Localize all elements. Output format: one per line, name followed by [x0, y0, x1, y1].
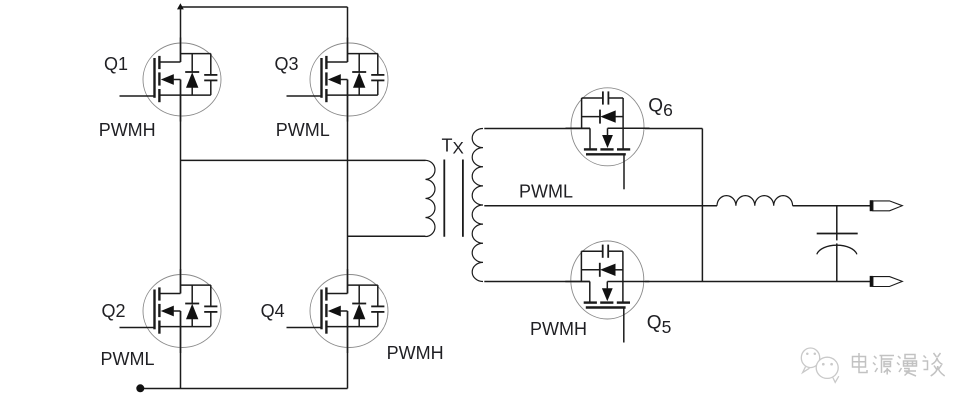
transistor Q1 [120, 38, 222, 122]
wire Q6 source to output return corner [645, 128, 702, 130]
wire Q5 source / return rail to output [645, 281, 871, 283]
node Vin+ arrow [177, 3, 184, 9]
wire mid rail: left leg to transformer primary top [181, 159, 426, 161]
wire bottom rail Vin- [140, 388, 347, 390]
svg-text:PWMH: PWMH [99, 120, 156, 140]
wire inductor to output terminal [793, 205, 871, 207]
svg-text:PWMH: PWMH [387, 343, 444, 363]
wire center tap to inductor [484, 205, 717, 207]
svg-text:TX: TX [442, 135, 464, 157]
transistor Q6 (rotated) [566, 88, 650, 190]
svg-text:PWML: PWML [519, 181, 573, 201]
terminal Vout+ [870, 200, 903, 211]
wire left leg middle (Q1 source to Q2 drain) [180, 80, 182, 294]
node Vin- dot [136, 384, 144, 392]
terminal Vout- [870, 276, 903, 287]
svg-text:Q6: Q6 [648, 96, 673, 121]
transformer Tx secondary winding (center-tapped) [472, 129, 483, 282]
capacitor Cout top plate [817, 233, 858, 235]
svg-text:Q1: Q1 [104, 54, 128, 74]
svg-text:PWMH: PWMH [530, 319, 587, 339]
wire top rail Vin+ [181, 6, 348, 8]
wire right leg to transformer primary bottom [348, 235, 426, 237]
watermark wechat icon bubble 2 [816, 357, 839, 382]
inductor Lout [717, 196, 793, 206]
wire Q4 source to bottom rail [347, 311, 349, 389]
watermark text dian yuan man tan [854, 354, 869, 374]
svg-text:PWML: PWML [101, 349, 155, 369]
wire secondary top to Q6 drain [484, 128, 590, 130]
svg-text:Q4: Q4 [261, 301, 285, 321]
wire secondary bottom to Q5 drain [484, 281, 590, 283]
capacitor Cout bottom lead [836, 243, 838, 281]
wire Q2 source to bottom rail [180, 311, 182, 389]
capacitor Cout curved plate [817, 245, 857, 254]
transistor Q2 [120, 269, 222, 353]
wire right leg upper (Q3 drain) [347, 7, 349, 62]
wire Q6 down to return rail [701, 129, 703, 282]
transformer Tx primary winding [426, 160, 435, 236]
svg-text:Q3: Q3 [275, 54, 299, 74]
svg-text:PWML: PWML [276, 120, 330, 140]
transformer Tx core [443, 160, 445, 237]
transistor Q3 [287, 38, 389, 122]
capacitor Cout top lead [836, 206, 838, 241]
svg-text:Q2: Q2 [102, 301, 126, 321]
wire right leg middle (Q3 source to Q4 drain) [347, 80, 349, 294]
wire left leg upper (Q1 drain) [180, 7, 182, 62]
svg-text:Q5: Q5 [647, 312, 672, 337]
watermark wechat icon bubble 1 [801, 348, 819, 373]
transistor Q5 (rotated) [565, 241, 649, 343]
transistor Q4 [287, 269, 389, 353]
